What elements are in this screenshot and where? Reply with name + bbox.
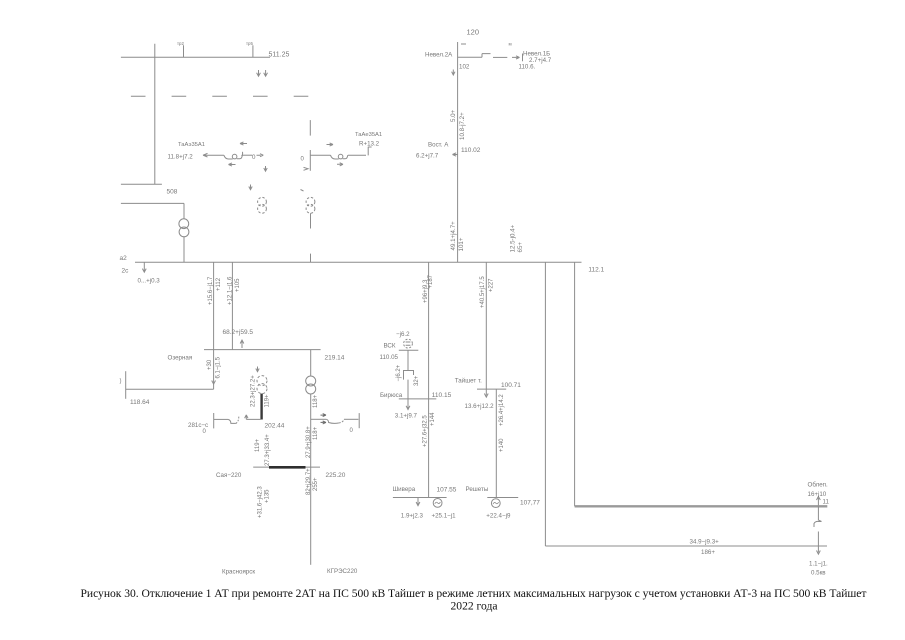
svg-text:511.25: 511.25 (269, 52, 290, 59)
reactor L2 end tick with flag (368, 147, 371, 156)
arrow below reactor L2 (337, 163, 343, 166)
svg-text:Бирюса: Бирюса (380, 392, 403, 399)
svg-text:+22.4−j9: +22.4−j9 (486, 512, 511, 519)
wire drop right inner (574, 262, 576, 506)
svg-text:+31.6−j42.3: +31.6−j42.3 (257, 486, 263, 518)
svg-text:2022 года: 2022 года (450, 600, 497, 613)
wire vertical left feeder (154, 44, 156, 185)
generator G2 tilde (493, 502, 499, 504)
generator G2 Reshety (491, 499, 500, 508)
breaker right rise arc (339, 419, 344, 423)
breaker 281s-s left tick (213, 413, 215, 428)
svg-text:Красноярск: Красноярск (222, 569, 255, 576)
svg-text:ТаАэ35А1: ТаАэ35А1 (178, 142, 205, 148)
svg-text:6.2+j7.7: 6.2+j7.7 (416, 152, 439, 159)
transformer 508 winding 2 (179, 227, 189, 237)
svg-text:110.02: 110.02 (461, 147, 481, 154)
arrow down near node 0 left (264, 166, 267, 171)
svg-text:+227: +227 (488, 278, 494, 292)
main bus 110kV (112.1) (135, 261, 582, 263)
svg-text:281с−с: 281с−с (188, 422, 208, 429)
svg-text:255+: 255+ (313, 477, 319, 491)
reactor branch left: arrow into label (203, 153, 224, 157)
svg-text:110.05: 110.05 (380, 354, 399, 361)
reactor L2 in wire (310, 154, 330, 156)
svg-text:−j6.2+: −j6.2+ (396, 364, 402, 381)
svg-text:10.8-j7.2+: 10.8-j7.2+ (459, 112, 466, 140)
svg-text:120: 120 (467, 28, 480, 37)
transformer 508 winding 1 (179, 219, 189, 229)
svg-text:3.1+j9.7: 3.1+j9.7 (395, 412, 418, 419)
generator G1 tilde (435, 502, 441, 504)
svg-text:11: 11 (823, 498, 830, 505)
svg-text:тр5: тр5 (246, 41, 253, 46)
node 508 wire (121, 203, 184, 218)
svg-text:Сая−220: Сая−220 (216, 472, 242, 479)
svg-text:Шивера: Шивера (393, 486, 416, 493)
svg-text:+25.1−j1: +25.1−j1 (432, 512, 457, 519)
wire drop right outer (544, 262, 546, 546)
bus Ozernaya 220kV (204, 349, 321, 351)
svg-text:65+: 65+ (517, 242, 524, 253)
svg-text:0: 0 (252, 154, 256, 161)
svg-text:+187: +187 (428, 274, 434, 288)
svg-text:0...+j0.3: 0...+j0.3 (138, 278, 161, 285)
breaker right wire to tick (344, 418, 358, 420)
svg-text:Тайшет т.: Тайшет т. (455, 377, 482, 384)
arrow down mid left (249, 185, 252, 190)
wire below winding W2 (310, 213, 312, 228)
svg-text:Рисунок 30. Отключение 1 АТ пр: Рисунок 30. Отключение 1 АТ при ремонте … (81, 587, 867, 600)
reactor L1 out wire (243, 154, 253, 156)
svg-text:−j6.2: −j6.2 (396, 331, 410, 338)
svg-text:+40.5+j17.5: +40.5+j17.5 (480, 276, 486, 308)
arrow up to Oblep load (817, 496, 821, 505)
VSK bus bar (399, 349, 419, 351)
svg-text:+15.6−j1.7: +15.6−j1.7 (208, 276, 214, 305)
load arrow Shivera (416, 498, 420, 506)
AT-3 heavy lead (260, 394, 262, 420)
wire Nevel dash segment (493, 56, 507, 58)
small arrow near right node (304, 167, 309, 170)
svg-text:219.14: 219.14 (325, 354, 345, 361)
svg-text:22.3+j27.2+: 22.3+j27.2+ (250, 375, 256, 407)
load arrow below Biryusa (406, 399, 410, 410)
svg-text:+12.1−j1.6: +12.1−j1.6 (228, 276, 234, 305)
svg-text:119+: 119+ (264, 394, 270, 408)
arrow below reactor L1 (229, 163, 236, 166)
AT-3 winding 2 (dashed) (257, 384, 267, 394)
svg-text:Невел.2А: Невел.2А (425, 51, 453, 58)
svg-text:м: м (509, 42, 512, 47)
svg-text:107,77: 107,77 (520, 499, 540, 506)
load arrow Oblep bottom (817, 546, 821, 554)
svg-text:+26.4+j14.2: +26.4+j14.2 (499, 394, 505, 426)
transformer 220 feeder upper wire (310, 350, 312, 376)
svg-text:1.1−j1.: 1.1−j1. (809, 560, 828, 567)
svg-text:+144: +144 (430, 412, 436, 426)
svg-text:12.5-j0.4+: 12.5-j0.4+ (509, 224, 516, 252)
svg-text:27.3+j33.4+: 27.3+j33.4+ (265, 434, 271, 466)
svg-text:118+: 118+ (313, 426, 319, 440)
spare winding W2 upper (306, 197, 315, 206)
wire tick T2 on 500kV bus (252, 45, 254, 57)
svg-text:Озерная: Озерная (168, 354, 193, 361)
wire dashed 500kV tie (131, 95, 309, 97)
svg-text:110.15: 110.15 (432, 392, 452, 399)
bus Saya-220 heavy section (269, 466, 306, 469)
spare winding W2 lower (306, 204, 315, 213)
bus Shivera (393, 497, 447, 499)
wire right inner heavy horizontal (575, 505, 828, 507)
breaker right arrows (321, 414, 327, 424)
reactor L2 out wire (348, 154, 366, 156)
transformer 220 winding 1 (306, 376, 316, 386)
svg-text:118.64: 118.64 (130, 399, 150, 406)
svg-text:+27.6+j32.5: +27.6+j32.5 (423, 415, 429, 447)
breaker Oblep symbol (814, 520, 822, 527)
tick above Nevel line (461, 43, 466, 45)
wire stub winding W2 to main bus (310, 254, 312, 263)
breaker right end tick (358, 413, 360, 428)
svg-text:0: 0 (203, 429, 207, 435)
wire below Saya to KGRES (310, 467, 312, 565)
VSK drop wire (407, 350, 409, 370)
svg-text:0: 0 (301, 156, 305, 162)
svg-text:27.9+j30.8+: 27.9+j30.8+ (306, 426, 312, 458)
reactor L1 end wire with arrow (257, 154, 264, 157)
breaker right tap wire (311, 418, 327, 420)
svg-text:11.8+j7.2: 11.8+j7.2 (168, 153, 194, 160)
reactor L1 loop (232, 154, 237, 159)
svg-text:а2: а2 (120, 255, 128, 262)
load arrow at 2s (142, 262, 146, 272)
svg-text:508: 508 (167, 189, 178, 196)
bus 500kV left (511.25) (121, 56, 270, 58)
breaker 281s-s wire (214, 418, 228, 420)
svg-text:202.44: 202.44 (265, 422, 285, 429)
svg-text:68.2+j59.5: 68.2+j59.5 (223, 329, 254, 336)
svg-text:34.9−j9.3+: 34.9−j9.3+ (690, 538, 720, 545)
svg-text:107.55: 107.55 (437, 487, 457, 494)
reactor L1 rise tick (242, 152, 243, 156)
VSK circle inner bars (406, 342, 411, 345)
arrow above reactor L1 (240, 142, 247, 145)
wire arrow into Nevel.1B (512, 54, 523, 62)
AT-3 bottom wire to hook arrow (245, 415, 261, 420)
arrow above AT-3 (256, 367, 259, 372)
small tick below (301, 190, 304, 192)
svg-text:82+j29.7+: 82+j29.7+ (306, 468, 312, 495)
wire Oblep connector upper (817, 506, 819, 520)
wire drop Taishet branch (484, 262, 488, 397)
svg-text:): ) (120, 379, 122, 385)
svg-text:101+: 101+ (458, 237, 465, 251)
generator G1 Shivera (433, 499, 442, 508)
svg-text:13.6+j12.2: 13.6+j12.2 (465, 403, 495, 410)
svg-text:R+13.2: R+13.2 (359, 140, 380, 147)
svg-text:119+: 119+ (255, 438, 261, 452)
svg-text:16+j10: 16+j10 (808, 491, 827, 498)
wire Oblep connector lower (817, 532, 819, 547)
svg-text:+140: +140 (499, 438, 505, 452)
VSK capacitor circle (dashed) (404, 339, 413, 348)
breaker 281s-s step and cup (228, 419, 236, 423)
svg-text:Облеп.: Облеп. (808, 481, 828, 488)
breaker 281s-s rise arc (dashed) (236, 416, 239, 423)
bus Biryusa 110kV (399, 398, 437, 400)
svg-text:КГРЭС220: КГРЭС220 (327, 568, 358, 575)
svg-text:0: 0 (350, 428, 354, 434)
svg-text:ВСК: ВСК (384, 343, 396, 350)
svg-text:6.1−j1.5: 6.1−j1.5 (215, 356, 221, 378)
svg-text:49.1+j4.7+: 49.1+j4.7+ (450, 221, 457, 251)
wire Biryusa main vertical (428, 262, 430, 497)
svg-text:112.1: 112.1 (588, 267, 604, 274)
svg-text:32+: 32+ (414, 375, 420, 386)
transformer 220 lower wire (310, 394, 312, 467)
wire tick T1 on 500kV bus (183, 45, 185, 57)
reactor branch right: node tick (309, 150, 311, 171)
AT-3 winding 1 (dashed) (257, 376, 267, 386)
bus Taishet t. (477, 388, 506, 390)
wire to node 118.64 (126, 388, 214, 390)
svg-text:2с: 2с (122, 268, 130, 275)
wire Ozernaya left drop (213, 350, 215, 390)
arrow up into Ozernaya bus (240, 340, 244, 348)
wire drop to Ozernaya B (231, 262, 233, 349)
spare winding W1 (dashed) lower (258, 204, 267, 213)
wire Nevel.2A jog (458, 54, 491, 58)
svg-text:ТаАе35А1: ТаАе35А1 (355, 132, 382, 138)
arrow on Ozernaya left drop (212, 381, 216, 385)
arrow above reactor L2 (327, 143, 334, 146)
arrow flow down a (257, 70, 261, 76)
reactor L2 coil squiggle (331, 155, 348, 159)
reactor branch right: stub from dashed tie (309, 120, 311, 136)
wire drop to Ozernaya A (213, 262, 215, 349)
wire right outer horizontal (545, 545, 827, 547)
reactor bracket at VSK (404, 371, 414, 380)
svg-text:тр2: тр2 (177, 41, 184, 46)
bus Saya-220 thin (253, 466, 320, 468)
svg-text:+105: +105 (235, 278, 241, 292)
svg-text:1.9+j2.3: 1.9+j2.3 (401, 512, 424, 519)
svg-text:225.20: 225.20 (326, 472, 346, 479)
Vost.A tap arrow (453, 153, 458, 156)
node 118.64 end bar (125, 371, 127, 399)
svg-text:+30: +30 (207, 359, 213, 370)
breaker right step cup (326, 419, 338, 423)
arrow flow down b (264, 70, 268, 76)
spare winding W1 (dashed) upper (258, 197, 267, 206)
svg-text:5.0+: 5.0+ (450, 109, 457, 122)
svg-text:110.6.: 110.6. (519, 63, 536, 70)
svg-text:102: 102 (459, 64, 470, 71)
svg-text:186+: 186+ (701, 549, 715, 556)
bus Reshety (487, 497, 518, 499)
svg-text:Решеты: Решеты (466, 486, 489, 493)
node 120 feeder vertical (457, 42, 459, 262)
wire horizontal to left feeder end (121, 183, 162, 185)
wire reactor to Biryusa bus (407, 380, 409, 399)
svg-text:+112: +112 (216, 277, 222, 291)
wire Taishet to Reshety (495, 389, 497, 497)
reactor L2 loop (338, 154, 343, 159)
transformer 220 winding 2 (306, 384, 316, 394)
svg-text:100.71: 100.71 (501, 382, 521, 389)
reactor L1 coil squiggle (224, 155, 242, 159)
svg-text:Вост. А: Вост. А (428, 142, 449, 149)
arrow down left of 120 feeder (452, 70, 455, 76)
svg-text:0.5кв: 0.5кв (811, 569, 826, 576)
svg-text:+135: +135 (264, 489, 270, 503)
wire transformer 508 to main bus (183, 237, 185, 262)
svg-text:118+: 118+ (313, 394, 319, 408)
